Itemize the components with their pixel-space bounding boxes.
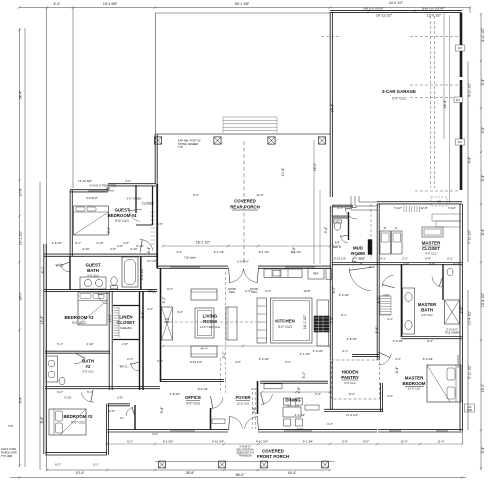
wire rear porch edge	[155, 133, 330, 135]
svg-text:12′-8″: 12′-8″	[420, 206, 427, 210]
wall guest bedroom west	[69, 190, 71, 256]
svg-text:5 1/2″: 5 1/2″	[394, 206, 401, 210]
wall garage east segment 1	[460, 13, 463, 78]
door master hall 2	[382, 275, 393, 287]
wall hall east lower	[160, 268, 162, 382]
svg-text:4′-2″: 4′-2″	[125, 179, 131, 183]
svg-text:5′-0″: 5′-0″	[107, 226, 111, 234]
wall office north	[161, 379, 225, 381]
dashed tray foyer 1	[220, 358, 222, 394]
svg-text:5 1/2″: 5 1/2″	[448, 206, 455, 210]
svg-text:9′-0″ CLG: 9′-0″ CLG	[278, 325, 292, 329]
svg-text:4′-0 1/2″: 4′-0 1/2″	[339, 293, 350, 297]
svg-text:34′-4″: 34′-4″	[331, 103, 335, 112]
dashed centerline rear porch	[243, 141, 245, 264]
wall hall east upper	[156, 184, 158, 268]
svg-text:9′-0″ CLG: 9′-0″ CLG	[425, 251, 436, 255]
svg-text:5′-1″: 5′-1″	[75, 241, 81, 245]
door front entry double	[229, 417, 242, 429]
svg-text:4′-10 3/4″: 4′-10 3/4″	[256, 440, 268, 444]
svg-text:9′-4″: 9′-4″	[481, 174, 485, 182]
wall half bath north	[332, 215, 349, 217]
svg-text:PAD: PAD	[467, 408, 472, 412]
wire extension line x73	[72, 8, 74, 188]
svg-text:SWG: SWG	[229, 290, 235, 294]
svg-text:8′-4″: 8′-4″	[349, 392, 355, 396]
kitchen west cabinets	[257, 298, 267, 343]
steps garage to mud room	[351, 196, 377, 210]
svg-text:BATH: BATH	[87, 268, 99, 273]
svg-text:PANTRY: PANTRY	[341, 375, 359, 380]
door wic guest	[60, 263, 70, 272]
door hall entry	[140, 239, 153, 250]
bed guest bedroom #4	[74, 206, 109, 235]
svg-text:9′-4″: 9′-4″	[481, 446, 485, 454]
svg-text:HALL: HALL	[148, 290, 156, 294]
garage right mid label box	[454, 97, 463, 103]
wall linen west	[108, 291, 110, 390]
svg-text:2′-8″: 2′-8″	[122, 342, 128, 346]
svg-text:4′-10″: 4′-10″	[86, 342, 93, 346]
door bedroom 3	[98, 293, 108, 304]
svg-text:ROOM: ROOM	[203, 319, 217, 324]
door foyer closet	[126, 407, 133, 416]
wall east exterior master	[459, 204, 461, 431]
wire dim line y392	[262, 391, 330, 393]
svg-text:GUEST: GUEST	[85, 263, 100, 268]
linen shelves hatch	[114, 307, 120, 338]
svg-text:4′-1 1/2″: 4′-1 1/2″	[295, 413, 306, 417]
svg-text:8′-0 1/2″: 8′-0 1/2″	[198, 387, 209, 391]
svg-text:6′-2″: 6′-2″	[57, 390, 63, 394]
wire extension line x444	[443, 13, 445, 139]
svg-text:7′-6″: 7′-6″	[330, 316, 334, 324]
svg-text:BEDROOM: BEDROOM	[403, 381, 426, 386]
svg-text:A/C: A/C	[437, 200, 441, 204]
svg-text:1/2: 1/2	[335, 241, 340, 245]
svg-text:GUEST: GUEST	[114, 208, 129, 213]
wall foyer closet	[134, 405, 136, 430]
svg-text:3′-0″: 3′-0″	[222, 351, 226, 359]
dashed line garage 2	[410, 84, 459, 86]
svg-text:5′-4″: 5′-4″	[315, 392, 321, 396]
window office front	[170, 430, 195, 432]
svg-text:2′-0″: 2′-0″	[403, 262, 409, 266]
dashed line garage 1	[410, 36, 459, 38]
svg-text:LIVING: LIVING	[203, 314, 218, 319]
svg-text:5′-1″: 5′-1″	[93, 462, 99, 466]
svg-text:8′-1 3/4″: 8′-1 3/4″	[163, 440, 174, 444]
door master water closet	[432, 276, 442, 287]
svg-text:4′-8 1/2″: 4′-8 1/2″	[170, 392, 181, 396]
svg-text:TYP.: TYP.	[8, 424, 14, 428]
wall kitchen north segment	[258, 265, 331, 267]
svg-text:5′-0 1/2″: 5′-0 1/2″	[423, 357, 434, 361]
door wic 2	[131, 363, 139, 371]
dashed line garage vertical 2	[434, 16, 436, 188]
wire extension line x449	[449, 15, 451, 203]
console living room east	[226, 307, 237, 340]
wall pantry north	[352, 354, 379, 356]
svg-text:KITCHEN: KITCHEN	[275, 319, 295, 324]
svg-text:6′-2″: 6′-2″	[55, 462, 61, 466]
garage apron step 1	[432, 214, 460, 221]
svg-text:9′-6″: 9′-6″	[481, 126, 485, 134]
closet foyer shelf	[212, 419, 225, 424]
svg-text:6′-0″x5′-0″ TEMPERED: 6′-0″x5′-0″ TEMPERED	[90, 183, 117, 187]
svg-text:TILE SHWR: TILE SHWR	[445, 331, 459, 335]
wall garage south	[377, 201, 462, 203]
svg-text:24′-0 1/2″: 24′-0 1/2″	[389, 1, 404, 5]
svg-text:34′-0″: 34′-0″	[19, 291, 23, 300]
svg-text:16′-0″: 16′-0″	[313, 162, 317, 171]
wire left inner dimension line	[24, 28, 26, 467]
wall garage north	[330, 9, 461, 11]
wall pantry west	[329, 361, 331, 411]
svg-text:CLOSET: CLOSET	[117, 320, 135, 325]
svg-text:16′x8′ O.H. DOOR: 16′x8′ O.H. DOOR	[421, 7, 442, 11]
svg-text:8′-4″: 8′-4″	[147, 246, 151, 254]
svg-text:BEDROOM #3: BEDROOM #3	[64, 315, 94, 320]
wire roof outline top	[155, 12, 330, 14]
svg-text:CL.: CL.	[120, 416, 124, 420]
svg-text:50′-1 1/8″: 50′-1 1/8″	[235, 2, 250, 6]
svg-text:4′-1″: 4′-1″	[380, 256, 386, 260]
svg-text:TYP HDR: TYP HDR	[1, 454, 12, 458]
svg-text:7′x5′ slider: 7′x5′ slider	[184, 256, 196, 260]
svg-text:12′-0″ CLG: 12′-0″ CLG	[237, 401, 250, 405]
shower master bath	[445, 300, 460, 324]
svg-text:14′-10 5/8″: 14′-10 5/8″	[78, 179, 92, 183]
svg-text:16′-1 1/2″: 16′-1 1/2″	[303, 314, 307, 329]
garage door label box 2	[456, 139, 465, 145]
svg-text:4′-8″: 4′-8″	[297, 386, 301, 394]
wall y255 band	[44, 253, 157, 255]
svg-text:9′-0″ CLG: 9′-0″ CLG	[72, 321, 86, 325]
svg-text:MASTER: MASTER	[422, 241, 441, 246]
AC pad	[465, 404, 475, 412]
door master bedroom entry	[379, 354, 391, 365]
svg-text:12′-4″: 12′-4″	[40, 315, 44, 324]
toilet guest bath	[111, 277, 117, 285]
svg-text:3′-1″: 3′-1″	[387, 317, 393, 321]
svg-text:8′-4″: 8′-4″	[481, 228, 485, 236]
buffet cabinet dining east	[305, 405, 319, 410]
svg-text:16′-1 1/2″: 16′-1 1/2″	[196, 241, 211, 245]
vanity guest bath	[80, 277, 106, 289]
toilet master bath	[447, 268, 453, 276]
door half bath	[341, 235, 348, 243]
dashed line garage 3	[410, 97, 459, 99]
svg-text:11′-4″: 11′-4″	[437, 440, 444, 444]
svg-text:4′-10″: 4′-10″	[82, 247, 89, 251]
svg-text:5′-1″: 5′-1″	[87, 390, 93, 394]
svg-text:5′-1″: 5′-1″	[447, 256, 453, 260]
svg-text:3′-4″: 3′-4″	[324, 226, 328, 234]
svg-text:FRONT PORCH: FRONT PORCH	[257, 454, 289, 459]
svg-text:11′-0″ TRAY CLG: 11′-0″ TRAY CLG	[200, 325, 220, 329]
bathtub guest bath	[122, 257, 138, 287]
cabinet kitchen north wall	[326, 269, 332, 280]
wire top dimension line	[19, 7, 470, 9]
dashed tray line living vertical	[225, 272, 227, 380]
svg-text:9x7: 9x7	[458, 46, 463, 50]
garage door label box 1	[456, 45, 465, 51]
wall wic east	[69, 256, 71, 290]
svg-text:9′-0″ CLG: 9′-0″ CLG	[115, 219, 129, 223]
svg-text:2′-4″: 2′-4″	[369, 265, 375, 269]
refrigerator	[308, 269, 324, 280]
sofa living room south	[191, 346, 217, 357]
svg-text:4′-10 1/2″: 4′-10 1/2″	[468, 82, 472, 97]
shelves hatch master hall	[380, 296, 391, 315]
wall master bedroom south	[378, 429, 462, 431]
wall y405 closet	[108, 403, 131, 405]
svg-text:4′-0″: 4′-0″	[302, 371, 306, 379]
garage A/C boxes	[431, 197, 447, 206]
wire dim line y246	[163, 245, 330, 247]
window master south 2	[436, 430, 448, 432]
svg-text:10′-4″: 10′-4″	[76, 471, 85, 475]
svg-text:9′-4″: 9′-4″	[481, 78, 485, 86]
svg-text:11′-4 1/2″: 11′-4 1/2″	[346, 413, 358, 417]
dashed line garage 1b	[321, 36, 340, 38]
wire right inner dimension line upper	[467, 61, 469, 262]
window master south 1	[389, 430, 401, 432]
wall back left wing north	[108, 183, 156, 185]
svg-text:15′-4 5/8″: 15′-4 5/8″	[103, 2, 118, 6]
svg-text:10x16 CVRD: 10x16 CVRD	[1, 447, 16, 451]
window reading front	[284, 430, 312, 432]
svg-text:2′-8″: 2′-8″	[117, 396, 123, 400]
chair dining 3	[284, 398, 291, 405]
washer dryer stack	[380, 231, 391, 254]
wall guest bath east	[140, 256, 142, 290]
svg-text:9′-0″ CLG: 9′-0″ CLG	[71, 420, 85, 424]
svg-text:SHELVES: SHELVES	[120, 326, 132, 330]
svg-text:3′-4″: 3′-4″	[327, 422, 333, 426]
wall bath2 north	[45, 350, 110, 352]
svg-text:2′-8″: 2′-8″	[109, 409, 115, 413]
wall front south east segment	[258, 429, 377, 431]
svg-text:MUD: MUD	[353, 246, 363, 251]
svg-text:8′-0″: 8′-0″	[332, 286, 336, 294]
svg-text:8′-1 1/2″: 8′-1 1/2″	[259, 250, 270, 254]
wall y291 band	[44, 289, 157, 291]
wall pantry south	[324, 408, 383, 410]
svg-text:16′-4″: 16′-4″	[288, 471, 297, 475]
wall master bedroom west	[376, 263, 378, 360]
svg-text:7′-10 1/2″: 7′-10 1/2″	[468, 229, 472, 244]
svg-text:W.I.C.: W.I.C.	[120, 365, 129, 369]
wall mud room west	[329, 206, 331, 267]
svg-text:5′-10 1/2″: 5′-10 1/2″	[334, 256, 346, 260]
svg-text:4′-0 1/2″: 4′-0 1/2″	[259, 357, 270, 361]
svg-text:3′-6″: 3′-6″	[460, 306, 464, 314]
svg-text:24′-4″: 24′-4″	[200, 347, 207, 351]
svg-text:MASTER: MASTER	[405, 376, 424, 381]
wall master closet west	[376, 204, 378, 263]
wall garage west	[329, 12, 331, 197]
dashed tray foyer 3	[252, 392, 254, 429]
wall living north west segment	[157, 265, 228, 267]
svg-text:54′-4″: 54′-4″	[19, 90, 23, 99]
wall linen east	[139, 291, 141, 390]
svg-text:3′-1″: 3′-1″	[342, 349, 348, 353]
wall dining north	[260, 380, 328, 382]
wall master bath interior	[442, 264, 444, 300]
coffee table living room	[195, 308, 214, 338]
svg-text:6′-0″x8′-0″: 6′-0″x8′-0″	[237, 259, 249, 263]
svg-text:3′-4″: 3′-4″	[395, 357, 401, 361]
wire left outer dimension line	[19, 28, 21, 467]
svg-text:11′-0″: 11′-0″	[108, 313, 112, 322]
wall guest closet south	[136, 224, 153, 226]
wall garage east segment 2	[460, 80, 463, 140]
svg-text:FOYER: FOYER	[235, 395, 251, 400]
svg-text:6′-1″: 6′-1″	[341, 313, 347, 317]
svg-text:10′-8″: 10′-8″	[19, 187, 23, 196]
svg-text:12′-1 1/2″: 12′-1 1/2″	[19, 230, 23, 245]
svg-text:ROOM: ROOM	[351, 251, 365, 256]
svg-text:D: D	[395, 226, 397, 230]
wall half bath east	[348, 212, 350, 240]
door guest bedroom 4	[129, 209, 139, 221]
wire dim line y444	[107, 443, 462, 445]
wire extension line x40	[39, 182, 41, 470]
svg-text:13′-4 1/2″: 13′-4 1/2″	[481, 292, 485, 307]
wire garage top sub-dimension	[369, 10, 462, 12]
svg-text:2′-8″: 2′-8″	[110, 247, 116, 251]
svg-text:8′-1″: 8′-1″	[41, 266, 45, 274]
dashed rect pantry ceiling	[332, 360, 380, 399]
dashed line garage vertical 1	[430, 16, 432, 188]
wall master band y263	[332, 262, 462, 264]
svg-text:86′-0″: 86′-0″	[236, 473, 245, 477]
svg-text:OFFICE: OFFICE	[185, 395, 201, 400]
vanity bath 2	[46, 356, 58, 382]
wall bath2 south	[45, 386, 160, 388]
table dining	[283, 407, 301, 417]
svg-text:9′x8′ O.H. DOOR: 9′x8′ O.H. DOOR	[363, 7, 383, 11]
wire right inner dimension line lower	[467, 290, 469, 430]
svg-text:2′-4″: 2′-4″	[127, 357, 133, 361]
svg-text:LINEN: LINEN	[119, 315, 132, 320]
svg-text:6′-2″: 6′-2″	[377, 296, 381, 304]
door bath 2	[74, 357, 85, 364]
svg-text:6′-8″: 6′-8″	[425, 256, 431, 260]
svg-text:5′-10″: 5′-10″	[136, 244, 143, 248]
svg-text:4′-8 1/2″: 4′-8 1/2″	[347, 337, 358, 341]
door french doors rear	[229, 269, 243, 283]
svg-text:9′-1 3/4″: 9′-1 3/4″	[303, 440, 314, 444]
wall west exterior	[43, 244, 45, 454]
wall bedroom2 south	[45, 452, 107, 454]
wall garage east segment 3	[460, 144, 463, 190]
svg-text:9′-0″ CLG: 9′-0″ CLG	[344, 381, 355, 385]
svg-text:4′-0″: 4′-0″	[235, 360, 241, 364]
shelves hatch guest closet	[151, 212, 156, 244]
kitchen back counter	[264, 269, 302, 278]
svg-text:4′-0 1/2″: 4′-0 1/2″	[313, 349, 324, 353]
wall pantry east	[380, 383, 382, 412]
svg-text:MASTER: MASTER	[418, 302, 437, 307]
svg-text:3′-1″: 3′-1″	[402, 256, 408, 260]
svg-text:4′-5″: 4′-5″	[157, 222, 163, 226]
svg-text:#2: #2	[86, 364, 91, 369]
svg-text:6′-8″: 6′-8″	[252, 406, 256, 414]
svg-text:8′-4″: 8′-4″	[427, 339, 433, 343]
door mud room south	[352, 254, 361, 263]
svg-text:5′-6″: 5′-6″	[375, 326, 379, 334]
svg-text:2′-0″: 2′-0″	[157, 359, 163, 363]
wire right outer dimension line	[480, 14, 482, 470]
garage apron step 2	[436, 221, 460, 227]
porch post rear 1	[154, 137, 161, 144]
svg-text:3′-1″: 3′-1″	[337, 206, 343, 210]
wire extension line x314	[313, 140, 315, 264]
shelves hatch master closet	[404, 206, 420, 212]
svg-text:9′-4″: 9′-4″	[468, 156, 472, 164]
svg-text:6′-8″: 6′-8″	[429, 262, 435, 266]
pantry shelving dark block	[314, 316, 329, 332]
svg-text:4′-1 1/2″: 4′-1 1/2″	[300, 352, 311, 356]
svg-text:24′-4″: 24′-4″	[443, 99, 447, 108]
wire east wall stub	[461, 431, 463, 444]
svg-text:COVERED: COVERED	[262, 448, 284, 453]
svg-text:9x7: 9x7	[456, 98, 461, 102]
wall master bath south	[402, 336, 463, 338]
svg-text:9′-4″: 9′-4″	[19, 396, 23, 404]
svg-text:5′-10″: 5′-10″	[64, 396, 71, 400]
wire top right corner stub	[469, 8, 471, 14]
svg-text:5′-1″: 5′-1″	[57, 342, 63, 346]
svg-text:16′-0″: 16′-0″	[481, 383, 485, 392]
bed bedroom #2	[49, 409, 86, 435]
kitchen east counter	[317, 300, 329, 346]
svg-text:8′-0″: 8′-0″	[363, 440, 369, 444]
wall guest closet west	[135, 185, 137, 213]
wall kitchen east	[329, 267, 331, 360]
kitchen sink	[273, 271, 281, 277]
buffet cabinet dining west	[264, 384, 282, 389]
wire extension line x46	[46, 8, 48, 470]
svg-text:5′-10 1/2″: 5′-10 1/2″	[190, 360, 202, 364]
chair dining 2	[296, 419, 303, 426]
door bedroom 2	[81, 393, 94, 403]
svg-text:9′-0″ CLG: 9′-0″ CLG	[186, 401, 200, 405]
wall mud room north	[332, 204, 353, 206]
wire dim line y346	[163, 345, 330, 347]
svg-text:3′-0″: 3′-0″	[177, 310, 183, 314]
wall office east	[210, 408, 212, 430]
bed master bedroom	[427, 365, 461, 402]
svg-text:3′-0″: 3′-0″	[152, 432, 158, 436]
toilet half bath	[334, 222, 340, 230]
wall jog guest bedroom	[106, 187, 108, 191]
porch post rear 4	[318, 137, 325, 144]
svg-text:4′-10 3/4″: 4′-10 3/4″	[212, 440, 224, 444]
svg-text:6′-0″: 6′-0″	[297, 427, 303, 431]
door master hall large arc	[349, 268, 371, 291]
porch post front 1	[159, 461, 166, 468]
svg-text:9x7: 9x7	[458, 140, 463, 144]
svg-text:10′-8″: 10′-8″	[303, 289, 310, 293]
wall porch west	[154, 134, 156, 184]
svg-text:13′-0″ CLG: 13′-0″ CLG	[408, 386, 421, 390]
svg-text:BATH: BATH	[333, 245, 342, 249]
svg-text:9′-0″: 9′-0″	[193, 193, 199, 197]
